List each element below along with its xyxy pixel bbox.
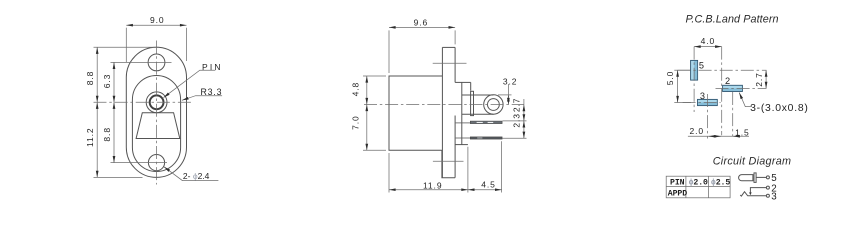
svg-text:2.0: 2.0 [690,126,705,136]
3-(3.0x0.8) leader [739,93,752,107]
pin 1 bar [470,121,502,124]
svg-text:2.7: 2.7 [512,98,522,113]
housing step bottom [455,144,468,146]
bottom mounting hole [148,155,164,171]
flange plate left edge [441,47,443,177]
pin 2 bar [470,137,502,139]
svg-text:5: 5 [699,61,704,71]
svg-text:APPD: APPD [668,189,687,198]
svg-text:4.5: 4.5 [481,179,496,189]
svg-text:7.0: 7.0 [351,115,361,130]
pin 2 lead line [456,137,471,139]
dim 11.2 line [96,102,98,177]
svg-text:9.0: 9.0 [150,15,165,25]
washer [471,91,474,115]
R3.3 leader [182,96,222,101]
bottom ext lines [388,153,390,193]
pin 2 highlight dash [477,137,482,140]
svg-text:1.5: 1.5 [735,127,750,137]
dim 2.3 line [523,121,525,138]
dim 5.0 ext lines [674,69,690,71]
svg-text:5.0: 5.0 [665,71,675,86]
housing interior edge [461,82,463,144]
dim 9.6 line [389,26,455,28]
dim 2.7 line [765,70,767,88]
svg-text:3: 3 [771,191,777,202]
svg-text:2: 2 [725,76,730,86]
table vertical line 2 [708,176,710,198]
plug crossbar [754,173,756,183]
body outline [389,76,442,150]
ext lines body top and bottom [363,75,386,77]
vertical centerline pad3 [706,94,708,139]
dim 5.0 line [677,70,679,102]
table frame [666,176,730,198]
side top hole tick [433,62,467,64]
vertical centerline pad5 [693,47,695,112]
bottom dim line [688,135,749,137]
table middle horizontal line [666,185,730,187]
2-phi2.4 leader [164,167,218,181]
svg-text:11.9: 11.9 [423,180,443,190]
dim 8.8 top line [96,47,98,102]
dim 11.9 line [389,189,468,191]
flange plate top edge [442,46,455,48]
pad 2 shade [723,88,742,91]
svg-text:2.7: 2.7 [754,72,764,87]
svg-text:3-(3.0x0.8): 3-(3.0x0.8) [750,103,809,114]
wire pin5 [756,176,766,178]
svg-text:4.0: 4.0 [701,36,716,46]
horizontal centerline through pad3 [683,102,721,104]
svg-text:PIN: PIN [670,178,685,187]
ext line pin2 [503,137,527,139]
barrel top edge [462,94,494,96]
side centerline [364,104,524,106]
wire pin2 [750,188,766,193]
dim 8.8 bottom line [113,102,115,162]
dim 4.5 line [468,189,502,191]
svg-text:6.3: 6.3 [102,74,112,89]
pad 5 [691,60,698,80]
dim arrow at pad3 centerline [709,135,715,137]
ext line pin1 [503,120,527,122]
ext line bottom hole center [111,162,168,164]
front view outer stadium flange [126,47,186,177]
svg-text:P.C.B.Land Pattern: P.C.B.Land Pattern [686,14,779,26]
bottom leg [442,150,455,177]
horizontal centerline through pad5 [678,69,767,71]
dim 3.2 line [507,84,509,95]
pin 1 highlight dashes [477,122,483,123]
pin2 contact arrow [749,192,752,195]
vertical centerline [156,41,158,185]
vertical centerline pad2 [732,92,734,136]
terminal circle 5 [766,176,769,179]
washer left upper edge [470,82,472,90]
svg-text:ϕ2.0: ϕ2.0 [689,177,708,187]
terminal circle 2 [766,186,769,189]
svg-text:5: 5 [771,173,777,184]
ext line top of flange [94,46,160,48]
housing step top [455,81,471,83]
plug capsule pin5 [739,175,753,181]
ext line barrel top [498,94,512,96]
svg-text:3.2: 3.2 [503,76,518,86]
barrel hole circle [488,99,500,111]
table vertical line 1 [685,176,687,198]
horizontal centerline through pin [94,101,192,103]
vertical centerline jack axis [721,47,723,136]
svg-text:2.3: 2.3 [512,113,522,128]
svg-text:ϕ2.5: ϕ2.5 [711,177,730,187]
svg-text:Circuit Diagram: Circuit Diagram [713,155,792,167]
horizontal centerline through pad2 [716,87,767,89]
dim 9.0 line [126,24,186,26]
barrel bottom edge [462,113,494,115]
side bottom hole tick [433,160,464,162]
center pin outer circle [146,92,167,113]
top mounting hole [148,54,165,71]
pin 1 lead line [456,122,471,124]
svg-text:9.6: 9.6 [414,17,429,27]
dim 6.3 line [113,62,115,102]
PIN leader [164,70,216,97]
pad 2 [723,85,743,91]
dim 4.0 line [694,46,722,48]
ext line top hole center [111,61,172,63]
contact spring trapezoid [136,113,180,139]
center pin inner circle (bold) [150,95,164,109]
flange plate right edge upper [454,47,456,82]
flange plate right edge lower [454,116,456,178]
dim arrow at pad2 centerline [733,135,737,137]
dim 9.0 extension lines [125,28,127,62]
svg-text:2- ϕ2.4: 2- ϕ2.4 [183,171,210,181]
pad 3 shade [698,102,717,105]
pad 5 shade [694,61,697,80]
dim 2.7 line [523,99,525,105]
dim 4.8 line [366,76,368,105]
dim 7.0 line [366,105,368,151]
barrel end circle [484,95,503,114]
wire pin3 with switch peak [740,192,766,196]
svg-text:3: 3 [700,91,705,101]
svg-text:4.8: 4.8 [351,82,361,97]
svg-text:8.8: 8.8 [85,71,95,86]
dim arrow at jack axis [715,135,721,137]
front view inner stadium body [132,75,180,171]
pad 3 [698,99,718,105]
dim 9.6 extension lines [388,30,390,73]
svg-text:8.8: 8.8 [102,127,112,142]
ext line bottom of flange [94,176,143,178]
terminal circle 3 [766,194,769,197]
svg-text:11.2: 11.2 [85,127,95,147]
